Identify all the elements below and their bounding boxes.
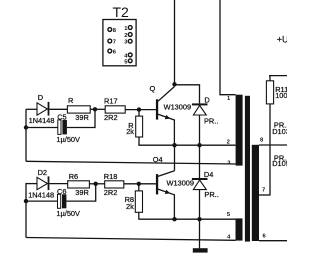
svg-text:1N4148: 1N4148 [29, 116, 55, 125]
diode D2 (1N4148) [37, 176, 49, 190]
svg-text:D: D [204, 95, 209, 104]
resistor R11 100 [266, 81, 273, 104]
T2 pin 2 [124, 33, 132, 39]
wire R8 to pin5 line [138, 212, 140, 219]
svg-text:D4: D4 [204, 170, 213, 179]
svg-text:2k: 2k [126, 127, 134, 136]
node collector junction [172, 82, 176, 86]
wire junction down to R8 [138, 184, 140, 191]
node row1 rail junction [24, 125, 28, 129]
svg-text:1µ/50V: 1µ/50V [56, 135, 80, 144]
resistor R8 2k [135, 191, 142, 212]
svg-text:W13009: W13009 [167, 178, 195, 187]
svg-text:2k: 2k [126, 202, 134, 211]
ground [193, 248, 208, 252]
capacitor C5 (electrolytic 1u/50V) [58, 120, 67, 134]
node D4 anode junction [197, 217, 201, 221]
capacitor C6 branch wire [26, 200, 58, 202]
wire pin 2 line [138, 144, 235, 146]
svg-text:2R2: 2R2 [104, 188, 118, 197]
svg-text:1N4148: 1N4148 [28, 190, 54, 199]
wire pin 4 line bottom rail [26, 238, 236, 241]
resistor R 2k (row1) [136, 116, 143, 137]
svg-text:2: 2 [227, 139, 230, 145]
T2 pin 6 [108, 49, 117, 55]
transformer secondary winding (pins 8-6) [252, 145, 259, 241]
wire R6 to R18 [89, 183, 104, 185]
wire C6 to node B [66, 184, 95, 201]
svg-text:Q: Q [150, 84, 156, 93]
resistor R6 39R [68, 181, 90, 188]
T2 pin 5 [124, 59, 132, 65]
svg-text:2: 2 [124, 33, 127, 39]
svg-text:PR..: PR.. [204, 190, 218, 199]
svg-text:D105: D105 [272, 159, 287, 168]
wire collector rail vertical x174.5 from top [174, 0, 176, 84]
wire diode D to R [49, 108, 67, 110]
resistor R18 2R2 [105, 181, 124, 188]
wire R11 top lead [269, 76, 271, 81]
diode D4 PR (vertical, row2) [192, 178, 208, 190]
svg-text:R17: R17 [104, 96, 118, 105]
wire diode D2 to R6 [49, 183, 67, 185]
node diode D anode junction [197, 143, 201, 147]
node emitter Q4 junction [172, 217, 176, 221]
wire D4 cathode vertical [199, 145, 201, 178]
transformer primary winding bottom (pins 5-4) [236, 218, 243, 240]
svg-text:7: 7 [262, 187, 265, 193]
svg-text:R18: R18 [104, 172, 118, 181]
T2 pin 3 [124, 39, 132, 45]
svg-text:100: 100 [275, 91, 287, 100]
node base Q junction [137, 107, 141, 111]
wire pin 6 line [259, 240, 287, 242]
wire R17 to base of Q [125, 109, 156, 111]
resistor R 39R [67, 106, 90, 113]
svg-text:D2: D2 [38, 168, 47, 177]
T2 pin 1 [124, 26, 132, 32]
wire +U top line [269, 75, 287, 77]
transformer core [245, 96, 250, 242]
resistor R17 2R2 [105, 106, 125, 113]
transistor Q4 W13009 [156, 171, 175, 220]
svg-text:2R2: 2R2 [104, 113, 118, 122]
transformer primary winding top (pins 1-3) [236, 95, 243, 166]
wire row1 left rail [25, 109, 27, 161]
svg-text:PR..: PR.. [204, 117, 218, 126]
node base Q4 junction [137, 182, 141, 186]
node A junction [93, 107, 97, 111]
T2 pin 8 [108, 28, 117, 34]
wire pin 7 line [259, 194, 271, 196]
wire diode D anode down to pin2 line [199, 115, 201, 145]
wire R11 bottom lead down to pin7 line [269, 104, 271, 195]
T2 pin 4 [124, 53, 132, 59]
svg-text:7: 7 [113, 40, 116, 46]
svg-text:C5: C5 [57, 113, 66, 122]
wire row2 main to diode D2 [26, 183, 37, 185]
svg-text:D: D [38, 93, 43, 102]
node emitter Q junction [172, 143, 176, 147]
wire pin 5 line [138, 218, 235, 220]
svg-text:T2: T2 [113, 4, 130, 20]
svg-text:+U: +U [277, 34, 287, 44]
diode D PR (vertical, row1) [192, 103, 208, 115]
svg-text:39R: 39R [75, 113, 89, 122]
wire row2 left rail [25, 183, 27, 238]
wire pin 8 line [259, 144, 287, 146]
wire collector to diode D (PR) [175, 85, 200, 104]
svg-text:Q4: Q4 [153, 155, 163, 164]
svg-text:1µ/50V: 1µ/50V [56, 209, 80, 218]
svg-text:R: R [68, 96, 73, 105]
node B junction [94, 182, 98, 186]
svg-text:W13009: W13009 [164, 103, 192, 112]
transformer pinout box T2 [103, 20, 136, 66]
wire R to R17 [90, 108, 105, 110]
diode D (1N4148) [37, 102, 49, 116]
wire C5 to node A [67, 109, 95, 127]
wire R 2k to pin2 line [138, 137, 140, 145]
wire +U rail vertical x220 to transformer pin 1 [220, 0, 236, 95]
svg-text:39R: 39R [75, 188, 89, 197]
wire junction down to R 2k [138, 110, 140, 117]
wire row1 main to diode D [26, 108, 37, 110]
wire pin 3 line [26, 161, 236, 164]
transistor Q W13009 [156, 87, 175, 146]
T2 pin 7 [108, 39, 116, 45]
wire midpoint vertical to Q4 collector [174, 145, 176, 171]
node row2 rail junction [24, 199, 28, 203]
svg-text:R6: R6 [69, 172, 78, 181]
wire R18 to base of Q4 [124, 183, 156, 185]
svg-text:D103: D103 [272, 127, 287, 136]
wire ground stem [199, 219, 201, 248]
wire D4 anode down to pin5 line [199, 190, 201, 220]
svg-text:C6: C6 [57, 187, 66, 196]
capacitor C5 branch wire [26, 127, 58, 129]
capacitor C6 (electrolytic 1u/50V) [58, 194, 67, 208]
